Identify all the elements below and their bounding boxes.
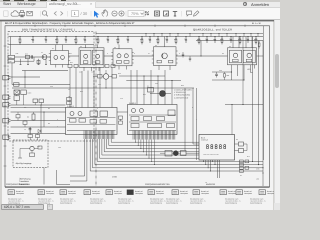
dashed boundary: transverter group xyxy=(8,32,94,142)
wire xyxy=(31,151,33,153)
wire xyxy=(250,69,252,73)
svg-text:BG 5: BG 5 xyxy=(201,136,205,139)
resistor R32 xyxy=(95,61,100,64)
wire xyxy=(160,152,165,154)
harness wire 8 xyxy=(107,139,200,149)
wire U11 pin 7 to harness xyxy=(151,140,153,162)
wire xyxy=(178,152,180,154)
harness wire 6 xyxy=(102,139,199,155)
resistor R18 (bus decoupling) xyxy=(198,37,200,40)
wire xyxy=(29,127,31,135)
resistor R12 (bus decoupling) xyxy=(141,37,143,40)
node on bus at x=33 xyxy=(33,36,34,37)
harness wire 5 xyxy=(100,139,200,158)
capacitor C31 xyxy=(33,99,38,103)
capacitor/link drop xyxy=(161,34,163,37)
junction xyxy=(40,104,41,105)
wire into U10 xyxy=(111,68,113,108)
node on bus at x=108 xyxy=(108,36,109,37)
buzzer H1 xyxy=(165,151,172,157)
capacitor/link drop xyxy=(218,34,220,37)
crystal Y1 xyxy=(14,90,20,95)
oscillator transistor Q20 xyxy=(160,91,166,97)
transistor Q21 xyxy=(30,146,34,150)
wire row y70 xyxy=(22,70,68,72)
capacitor C7 (bus decoupling) xyxy=(84,37,86,40)
wire display to R61 xyxy=(235,150,239,152)
input connector X1a xyxy=(8,55,15,58)
resistor R80 xyxy=(258,43,260,46)
resistor R34 xyxy=(67,98,72,101)
node on bus at x=186 xyxy=(186,36,187,37)
wire into U10 xyxy=(93,71,95,108)
wire U2 to U3 xyxy=(104,55,113,57)
resistor R42 xyxy=(105,65,109,68)
wire xyxy=(237,69,239,77)
capacitor C24 (bus decoupling) xyxy=(247,37,249,40)
legend symbol 3 xyxy=(60,190,66,195)
capacitor C56 xyxy=(36,135,40,138)
toolbar icon: collapse arrows xyxy=(145,11,149,15)
wire edge X5 xyxy=(11,120,66,122)
junction harness xyxy=(145,154,148,157)
svg-text:D 192 D: D 192 D xyxy=(129,102,137,105)
harness wire 1 xyxy=(90,139,263,171)
wire drop right of U11 xyxy=(184,88,186,151)
wire out of Q20 xyxy=(166,93,172,95)
pin U3-5 xyxy=(118,66,120,70)
wire xyxy=(102,76,103,78)
legend symbol 11 xyxy=(236,190,242,195)
internal rail U11 mid xyxy=(129,114,176,116)
wire row y127 xyxy=(11,126,66,128)
wire U11 pin 8 to harness xyxy=(153,140,155,165)
wire U1 to U2 xyxy=(69,55,80,57)
svg-text:75%: 75% xyxy=(131,12,139,16)
wire LED out xyxy=(244,143,248,145)
resistor block RC xyxy=(90,120,97,124)
resistor R26 xyxy=(26,55,30,58)
harness wire 3 xyxy=(95,139,263,165)
document page (scanned schematic sheet) xyxy=(2,21,273,210)
resistor R8 xyxy=(23,121,27,124)
pin U1-2 xyxy=(62,45,64,51)
register block D xyxy=(131,124,139,128)
pin U4/U5 down xyxy=(231,65,233,69)
wire right bus 3 xyxy=(262,41,264,168)
wire edge X4 to counter xyxy=(11,104,66,106)
wire into U11 xyxy=(130,70,132,105)
edge connector X4 xyxy=(3,103,9,107)
capacitor C66 xyxy=(182,52,184,54)
pin U2-1 xyxy=(85,45,87,48)
resistor R38 xyxy=(68,65,72,68)
frame inner vertical (right margin rule) xyxy=(263,26,265,160)
wire join xyxy=(33,57,35,61)
register block F xyxy=(167,124,175,128)
svg-text:4 ZAEHLER-BCD: 4 ZAEHLER-BCD xyxy=(174,96,189,99)
svg-text:FREQUENZANZEIGETEIL: FREQUENZANZEIGETEIL xyxy=(145,183,171,186)
schematic frame border xyxy=(5,26,270,187)
wire xyxy=(231,69,233,81)
pin U1-1 xyxy=(55,45,57,51)
toolbar icon: fill &amp; sign pen xyxy=(194,11,199,16)
resistor R45 xyxy=(112,75,117,79)
wire horizontal y104 xyxy=(225,104,263,106)
resistor R16 (bus decoupling) xyxy=(175,37,177,40)
junction harness xyxy=(137,144,140,147)
node on bus at x=215 xyxy=(215,36,216,37)
capacitor C11 (bus decoupling) xyxy=(127,37,129,40)
legend symbol 8 xyxy=(172,190,178,195)
svg-text:Übersetzung: Übersetzung xyxy=(19,177,30,180)
resistor R39 xyxy=(74,65,78,68)
legend symbol 10 xyxy=(220,190,226,195)
resistor block RB xyxy=(79,119,86,123)
capacitor/link drop xyxy=(257,34,259,37)
toolbar icon: prev page xyxy=(54,11,56,15)
svg-text:3 TORSCHALTUNG: 3 TORSCHALTUNG xyxy=(174,94,191,97)
node on bus at x=240 xyxy=(240,36,241,37)
wire x263 to bottom frame xyxy=(262,168,264,186)
toolbar icon: next page xyxy=(61,11,63,15)
divider U5 xyxy=(243,50,255,63)
edge connector X6 xyxy=(3,135,9,139)
toolbar icon: full screen xyxy=(164,11,169,16)
resistor R63 xyxy=(240,163,244,166)
wire U11 pin 3 to harness xyxy=(140,140,142,149)
resistor R24 xyxy=(38,146,42,149)
toolbar icon: email xyxy=(27,11,33,15)
wire into U10 xyxy=(75,68,77,108)
wire xyxy=(172,152,173,154)
transistor Q2 xyxy=(54,56,58,60)
capacitor C17 (bus decoupling) xyxy=(185,37,187,40)
resistor R28 xyxy=(37,60,40,63)
resistor R8 (bus decoupling) xyxy=(97,37,99,40)
wire stub xyxy=(38,59,40,65)
diode bar xyxy=(40,129,42,132)
wire U11 pin 6 to harness xyxy=(148,140,150,159)
toolbar icon: file (disabled) xyxy=(4,11,9,17)
harness wire 4 xyxy=(97,139,263,161)
junction xyxy=(231,104,232,105)
wire into U11 xyxy=(136,70,138,105)
toolbar icon: search xyxy=(42,11,46,15)
svg-text:ANZEIGE: ANZEIGE xyxy=(206,183,216,186)
legend symbol 1 xyxy=(8,190,14,195)
wire into U10 xyxy=(81,71,83,108)
svg-text:BG 37 B Frequenzähler Stroml: BG 37 B Frequenzähler Stromlaufplan · Fr… xyxy=(5,22,135,25)
junction xyxy=(242,104,243,105)
wire xyxy=(23,95,25,106)
capacitor C5 (bus decoupling) xyxy=(65,37,67,40)
node on bus at x=66 xyxy=(66,36,67,37)
wire into U11 xyxy=(157,76,159,105)
wire into U10 xyxy=(69,68,71,108)
legend symbol 12 xyxy=(259,190,265,195)
node on bus at x=57 xyxy=(57,36,58,37)
wire osc tap xyxy=(200,41,202,57)
node on bus at x=158 xyxy=(158,36,159,37)
register block A xyxy=(131,117,139,121)
transistor Q6 xyxy=(117,54,121,58)
svg-text:L103 L104 L105 L106 L107: L103 L104 L105 L106 L107 xyxy=(203,154,219,156)
internal rail U10 mid2 xyxy=(67,124,116,126)
node on bus at x=20 xyxy=(20,36,21,37)
wire xyxy=(29,127,31,129)
input connector X1b xyxy=(8,60,15,63)
capacitor C72 xyxy=(216,72,218,74)
mixer module U2 (outer) xyxy=(79,48,104,68)
power bus +Ub xyxy=(9,36,264,38)
transistor Q9 xyxy=(233,53,237,57)
frame tick marks top xyxy=(34,25,36,27)
ground xyxy=(38,64,40,66)
wire xyxy=(33,112,35,114)
node on bus at x=118 xyxy=(118,36,119,37)
resistor R6 (bus decoupling) xyxy=(75,37,77,40)
capacitor/link drop xyxy=(226,34,228,37)
ground xyxy=(20,64,22,66)
pin buffer-b xyxy=(169,66,171,71)
resistor R75 xyxy=(233,59,239,61)
wire xyxy=(34,148,38,150)
wire y72 xyxy=(212,71,232,73)
wire right bus 1 xyxy=(252,37,254,162)
capacitor C32 xyxy=(39,99,44,103)
node on bus at x=128 xyxy=(128,36,129,37)
wire xyxy=(16,100,18,105)
junction x25 xyxy=(24,76,25,77)
node on bus at x=167 xyxy=(167,36,168,37)
capacitor C19 (bus decoupling) xyxy=(206,37,208,40)
wire xyxy=(37,138,39,141)
transistor Q5 xyxy=(96,54,100,58)
wire buffer Vcc xyxy=(164,37,166,47)
wire U4/U5 supply xyxy=(251,37,253,48)
pin U1-5 xyxy=(62,65,64,68)
toolbar icon: funnel xyxy=(173,11,177,16)
wire xyxy=(19,149,21,159)
resistor R65 xyxy=(240,170,244,173)
bus 2 (right section) xyxy=(196,40,263,42)
junction osc tap xyxy=(200,55,201,56)
junction xyxy=(243,79,244,80)
wire right bus 2 xyxy=(258,41,260,165)
pin U1-4 xyxy=(55,65,57,68)
junction x263 low xyxy=(262,172,263,173)
wire into display xyxy=(193,143,199,145)
wire output box drop xyxy=(43,168,45,185)
resistor R64 xyxy=(240,166,244,169)
harness wire 9 xyxy=(109,139,199,145)
resistor R35 xyxy=(117,61,122,64)
wire xyxy=(105,70,107,74)
wire riser x41 xyxy=(40,105,42,134)
wire row y84 xyxy=(12,84,70,86)
wire xyxy=(24,120,26,123)
svg-text:Bl. 1 v. 30: Bl. 1 v. 30 xyxy=(252,22,262,25)
dashed box: outputs xyxy=(13,140,48,168)
legend symbol 6 xyxy=(127,190,133,195)
svg-text:QUARZOSZILL. und TEILER: QUARZOSZILL. und TEILER xyxy=(193,29,232,32)
toolbar icon: print xyxy=(19,12,24,15)
resistor R31 xyxy=(83,61,88,64)
display pin row xyxy=(203,160,205,161)
pin U4/U5 down xyxy=(237,65,239,69)
transistor Q12 xyxy=(78,112,82,116)
legend symbol 7 xyxy=(148,190,154,195)
wire xyxy=(17,118,19,121)
wire to right bus xyxy=(251,72,253,74)
wire into U11 xyxy=(171,81,173,105)
svg-text:40p-40g-Ausgänge: 40p-40g-Ausgänge xyxy=(16,162,32,165)
wire U11 pin 5 to harness xyxy=(145,140,147,156)
junction xyxy=(171,80,172,81)
wire xyxy=(16,95,18,96)
capacitor/link drop xyxy=(177,34,179,37)
frame tick marks left xyxy=(4,45,7,47)
section divider (dash-dot) xyxy=(95,32,97,187)
wire edge X2 xyxy=(11,76,41,78)
wire into U11 xyxy=(164,70,166,105)
node on bus at x=46 xyxy=(46,36,47,37)
bus 2 (left section) xyxy=(9,44,95,46)
wire to output group 2 xyxy=(70,139,85,176)
right scrollbar xyxy=(274,20,281,210)
resistor R21 (bus decoupling) xyxy=(221,37,223,40)
pin U2-2 xyxy=(97,45,99,48)
resistor R23 xyxy=(30,153,35,157)
wire U4 box to frame xyxy=(257,55,264,57)
toolbar icon: zoom in xyxy=(119,11,124,16)
svg-text:FREQUENZZÄHLERTEIL: FREQUENZZÄHLERTEIL xyxy=(6,183,31,186)
junction xyxy=(262,167,263,168)
junction xyxy=(157,75,158,76)
transistor Q4 xyxy=(84,54,88,58)
transistor Q14 xyxy=(140,109,144,113)
pin U2-8 xyxy=(91,67,93,71)
wire stub xyxy=(27,59,29,65)
display pin long drop xyxy=(216,160,218,178)
wire to output group xyxy=(70,139,87,181)
capacitor/link drop xyxy=(243,34,245,37)
bus 3 (right section upper) xyxy=(96,33,263,35)
resistor R72 xyxy=(224,74,226,78)
wire xyxy=(37,134,39,135)
junction harness xyxy=(134,141,137,144)
wire riser x12 xyxy=(11,63,13,85)
resistor R23 (bus decoupling) xyxy=(239,37,241,40)
sign-in area xyxy=(243,2,247,6)
wire bus drop to X1 xyxy=(10,37,12,56)
capacitor/link drop xyxy=(153,34,155,37)
oscillator module U3 xyxy=(113,49,132,66)
mixer half U2b xyxy=(93,50,104,65)
edge connector X5 xyxy=(3,119,9,123)
side pin ticks buffer xyxy=(152,50,154,52)
wire xyxy=(109,76,112,78)
harness wire 7 xyxy=(104,139,199,152)
seven-segment digit glyphs xyxy=(206,145,208,147)
capacitor C9 (bus decoupling) xyxy=(107,37,109,40)
resistor R47 xyxy=(119,121,123,124)
junction harness xyxy=(139,147,142,150)
wire xyxy=(33,119,35,122)
internal rail U11 xyxy=(129,130,176,132)
counter IC U10 xyxy=(66,108,118,135)
wire row y112 xyxy=(11,111,66,113)
resistor R67 xyxy=(245,166,249,169)
resistor R46 xyxy=(119,116,123,119)
resistor R14 (bus decoupling) xyxy=(157,37,159,40)
svg-text:/ 30: / 30 xyxy=(81,11,88,16)
wire into U11 xyxy=(150,70,152,105)
junction xyxy=(143,75,144,76)
toolbar icon: comment bubble xyxy=(187,11,192,16)
legend symbol 5 xyxy=(106,190,112,195)
wire display to LED xyxy=(235,143,239,145)
capacitor/link drop xyxy=(189,34,191,37)
wire row y107 xyxy=(11,106,66,108)
wire xyxy=(244,150,248,152)
transistor Q7 xyxy=(124,54,128,58)
wire into Q20 xyxy=(150,93,160,95)
svg-text:BRD TRANSVERTERTEIL ( GRUPPE ): BRD TRANSVERTERTEIL ( GRUPPE ) xyxy=(22,29,75,32)
wire stub xyxy=(45,59,47,65)
amplifier module U1 xyxy=(51,51,69,65)
node on bus at x=85 xyxy=(85,36,86,37)
register block E xyxy=(148,124,162,128)
pin U4/U5 down xyxy=(243,65,245,69)
toolbar icon: fit page xyxy=(155,11,160,16)
resistor R76 xyxy=(246,59,252,61)
register block C xyxy=(157,117,165,121)
capacitor C67 xyxy=(189,56,191,58)
node on bus at x=256 xyxy=(256,36,257,37)
node on bus at x=150 xyxy=(150,36,151,37)
display module BG5 xyxy=(199,135,235,161)
transistor Q8 xyxy=(162,53,168,59)
wire edge X6 to counter xyxy=(11,133,66,135)
toolbar icon: zoom out xyxy=(112,11,117,16)
sub-block U10a xyxy=(90,111,98,117)
capacitor/link drop xyxy=(169,34,171,37)
svg-text:Translation: Translation xyxy=(19,180,29,183)
capacitor/link drop xyxy=(202,34,204,37)
wire U4/U5 supply xyxy=(238,37,240,48)
wire to bus xyxy=(242,37,244,105)
resistor R50 xyxy=(32,114,35,120)
wire into display top xyxy=(231,105,233,135)
wire into U10 xyxy=(87,71,89,108)
resistor R40 xyxy=(157,60,161,63)
buffer stage box xyxy=(154,47,177,66)
junction xyxy=(231,71,232,72)
wire xyxy=(29,138,31,141)
page size popup xyxy=(1,204,44,210)
wire buffer to U4 xyxy=(176,55,228,57)
pin U4/U5 down xyxy=(254,65,256,69)
wire xyxy=(243,69,245,81)
pin U2-7 xyxy=(83,67,85,71)
diode V50 xyxy=(38,129,41,132)
resistor R62 xyxy=(240,160,244,163)
transistor Q11 xyxy=(70,112,74,116)
toolbar xyxy=(0,8,280,20)
bias box xyxy=(148,88,154,93)
